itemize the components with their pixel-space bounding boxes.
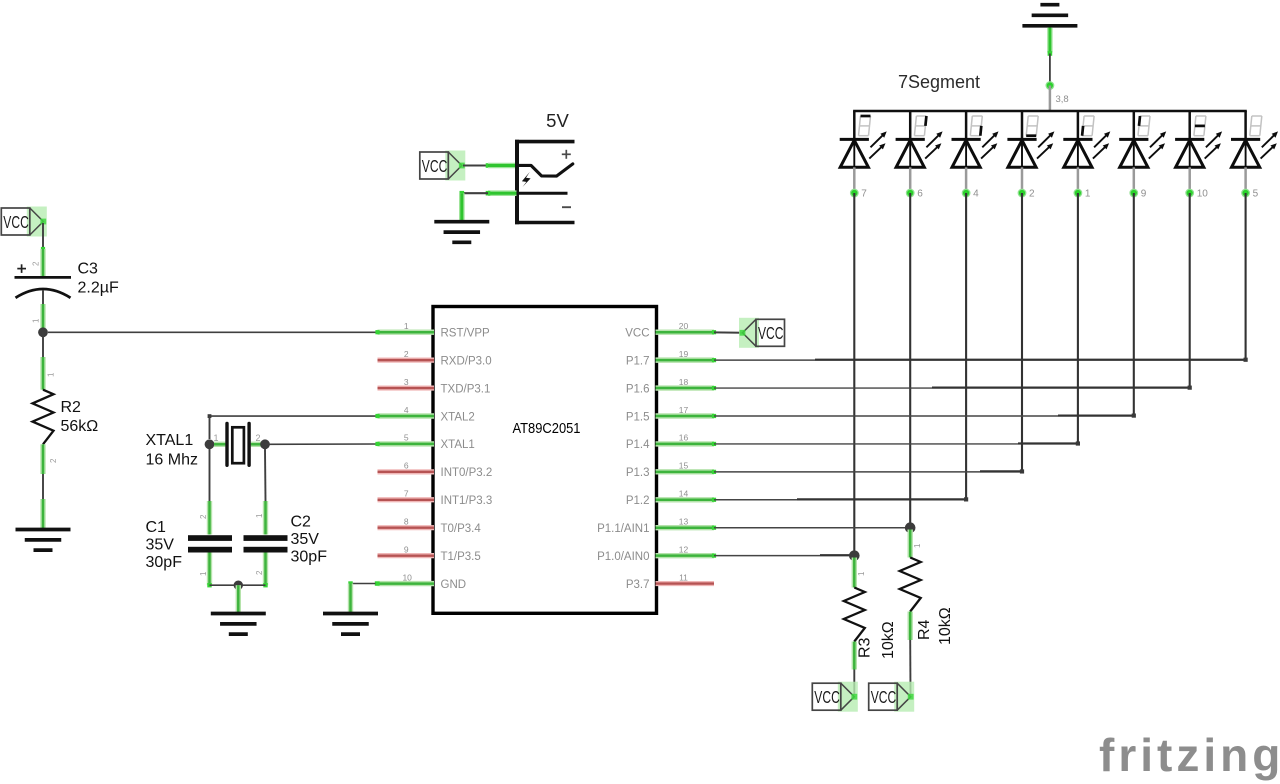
svg-text:5V: 5V [546, 110, 569, 131]
capacitor C1 pin 2 (green) [207, 501, 212, 535]
svg-text:10kΩ: 10kΩ [937, 607, 954, 645]
svg-text:P1.1/AIN1: P1.1/AIN1 [597, 523, 649, 535]
wire R3 to VCC flag [853, 670, 855, 696]
svg-text:VCC: VCC [422, 156, 448, 176]
svg-text:12: 12 [679, 544, 689, 554]
svg-text:10: 10 [1197, 189, 1209, 200]
resistor R4 pin 1 (green) [908, 530, 913, 558]
svg-text:30pF: 30pF [146, 554, 183, 571]
svg-text:P1.2: P1.2 [626, 495, 650, 507]
pin 19 P1.7 (right) [626, 349, 716, 368]
junction crystal pin 2 node [260, 439, 270, 449]
wire P1.7 to led column [714, 358, 1248, 362]
ground (below R2) [16, 530, 71, 551]
ground (at battery) [434, 222, 489, 243]
resistor R3 [844, 588, 865, 642]
pin 3 TXD/P3.1 (left) [378, 377, 491, 396]
pin 2 RXD/P3.0 (left) [378, 349, 492, 368]
pin label 3,8 [1056, 94, 1069, 105]
power flag VCC (below R3) [812, 682, 858, 712]
pin 5 XTAL1 (left) [375, 433, 474, 452]
svg-text:R4: R4 [916, 619, 933, 640]
svg-text:1: 1 [404, 321, 409, 331]
led segment g (display pin 10) [1175, 111, 1222, 167]
7segment cathode pin 10 [1185, 167, 1208, 199]
led segment d (display pin 2) [1007, 111, 1054, 167]
junction node P1.0/R3 [849, 550, 860, 561]
svg-text:VCC: VCC [3, 212, 29, 232]
pin 17 P1.5 (right) [626, 405, 716, 424]
svg-text:INT0/P3.2: INT0/P3.2 [441, 467, 493, 479]
wire pin20 to VCC flag [714, 331, 743, 333]
pin 13 P1.1/AIN1 (right) [597, 517, 716, 536]
pin label 1 of C2 [255, 513, 264, 518]
svg-text:9: 9 [1141, 189, 1147, 200]
pin label 2 of crystal [256, 433, 261, 443]
wire led 3 down to row [965, 193, 967, 500]
pin 4 XTAL2 (left) [375, 405, 474, 424]
svg-text:6: 6 [917, 189, 923, 200]
label C1 35V 30pF [146, 519, 183, 571]
wire R4 to VCC flag [909, 640, 911, 695]
pin label 1 of R3 [857, 571, 866, 576]
svg-text:1: 1 [1085, 189, 1091, 200]
wire P1.3 to led column [714, 469, 1024, 473]
wire XTAL2 pin to crystal (top) [208, 414, 377, 439]
wire R2 to ground [42, 474, 44, 499]
svg-text:30pF: 30pF [291, 549, 328, 566]
svg-text:1: 1 [199, 571, 208, 576]
pin 1 RST/VPP (left) [375, 321, 490, 340]
svg-text:7: 7 [861, 189, 867, 200]
svg-text:2.2µF: 2.2µF [78, 280, 119, 297]
svg-text:1: 1 [255, 513, 264, 518]
ground pin (green) below R2 [40, 499, 45, 529]
label 5V [546, 110, 569, 131]
svg-text:P1.4: P1.4 [626, 439, 650, 451]
wire led 5 down to row [1077, 193, 1079, 444]
pin label 1 of R4 [913, 543, 922, 548]
wire led 8 down to row [1245, 193, 1247, 360]
svg-text:VCC: VCC [625, 328, 649, 340]
svg-text:4: 4 [404, 405, 409, 415]
pin label 2 of R2 [49, 458, 58, 463]
resistor R4 [900, 558, 921, 612]
battery 5V symbol [515, 140, 575, 225]
led segment e (display pin 1) [1063, 111, 1110, 167]
wire led 1 down to row [853, 193, 855, 556]
svg-text:7Segment: 7Segment [898, 72, 980, 92]
ground pin (green) at battery [459, 193, 465, 221]
svg-text:R2: R2 [61, 399, 82, 416]
ground pin (green) below C1/C2 [236, 585, 241, 613]
wire led 2 down to row [909, 193, 911, 528]
svg-text:2: 2 [1029, 189, 1035, 200]
pin label 1 of R2 [47, 372, 56, 377]
svg-text:15: 15 [679, 461, 689, 471]
svg-text:1: 1 [913, 543, 922, 548]
fritzing watermark [1099, 729, 1280, 781]
svg-text:1: 1 [857, 571, 866, 576]
svg-text:T0/P3.4: T0/P3.4 [441, 523, 482, 535]
led segment b (display pin 6) [896, 111, 943, 167]
battery - pin (green) [486, 191, 517, 196]
svg-text:C3: C3 [78, 261, 99, 278]
7segment anode bus [853, 110, 1247, 113]
power flag VCC (top left) [1, 207, 47, 237]
pin 8 T0/P3.4 (left) [378, 517, 482, 536]
svg-text:3: 3 [404, 377, 409, 387]
pin label 1 of C3 [32, 318, 41, 323]
label R3 10kOhm (rotated) [857, 621, 898, 659]
svg-text:8: 8 [404, 517, 409, 527]
svg-text:2: 2 [255, 570, 264, 575]
wire VCC flag to C3 pin 2 [41, 223, 45, 251]
wire C2 to center junction [242, 583, 268, 587]
label XTAL1 16 Mhz [146, 432, 198, 469]
junction C1/C2 ground node [234, 581, 243, 590]
svg-text:P1.0/AIN0: P1.0/AIN0 [597, 551, 649, 563]
resistor R2 pin 1 (green) [40, 357, 45, 390]
svg-text:13: 13 [679, 517, 689, 527]
wire C1 to center junction [207, 583, 235, 587]
pin 9 T1/P3.5 (left) [378, 544, 481, 563]
wire P1.0 to led column [714, 554, 854, 556]
svg-text:10kΩ: 10kΩ [880, 621, 897, 659]
svg-text:20: 20 [679, 321, 689, 331]
svg-text:18: 18 [679, 377, 689, 387]
led segment c (display pin 4) [952, 111, 999, 167]
resistor R2 [33, 390, 54, 445]
pin label 2 of C1 [199, 514, 208, 519]
wire led 7 down to row [1189, 193, 1191, 388]
wire crystal pin1 down to C1 [209, 449, 211, 501]
7segment cathode pin 5 [1241, 167, 1258, 199]
wire crystal pin 2 to XTAL1 pin [265, 443, 377, 445]
capacitor C2 pin 1 (green) [263, 501, 268, 535]
capacitor C1 35V 30pF [188, 535, 232, 552]
svg-text:5: 5 [404, 433, 409, 443]
pin label 2 of C3 [32, 261, 41, 266]
svg-text:XTAL1: XTAL1 [146, 432, 194, 449]
capacitor C1 pin 1 (green) [207, 553, 212, 586]
svg-text:T1/P3.5: T1/P3.5 [441, 551, 481, 563]
7segment cathode pin 9 [1129, 167, 1146, 199]
svg-text:AT89C2051: AT89C2051 [513, 421, 581, 437]
wire GND pin 10 to ground [348, 581, 379, 585]
pin 10 GND (left) [375, 572, 466, 591]
wire junction down to R2 [42, 332, 44, 357]
capacitor C2 35V 30pF [244, 535, 288, 552]
svg-text:XTAL1: XTAL1 [441, 439, 475, 451]
pin label 1 of C1 [199, 571, 208, 576]
pin 18 P1.6 (right) [626, 377, 716, 396]
pin 7 INT1/P3.3 (left) [378, 489, 493, 508]
svg-text:1: 1 [32, 318, 41, 323]
svg-text:2: 2 [49, 458, 58, 463]
led segment f (display pin 9) [1119, 111, 1166, 167]
svg-text:TXD/P3.1: TXD/P3.1 [441, 383, 491, 395]
svg-text:35V: 35V [146, 537, 175, 554]
wire P1.4 to led column [714, 441, 1080, 445]
junction crystal pin 1 node [205, 439, 215, 449]
svg-text:2: 2 [199, 514, 208, 519]
wire P1.6 to led column [714, 386, 1192, 390]
wire ground to 7segment common [1048, 28, 1053, 86]
7segment cathode pin 4 [962, 167, 979, 199]
svg-text:1: 1 [47, 372, 56, 377]
pin label 2 of C2 [255, 570, 264, 575]
pin 16 P1.4 (right) [626, 433, 716, 452]
svg-text:56kΩ: 56kΩ [61, 418, 99, 435]
wire crystal pin2 down to C2 [264, 449, 267, 501]
svg-text:P1.3: P1.3 [626, 467, 650, 479]
pin 12 P1.0/AIN0 (right) [597, 544, 716, 563]
svg-text:17: 17 [679, 405, 689, 415]
junction node at C3/R2/RST [38, 327, 48, 337]
7segment cathode pin 6 [906, 167, 923, 199]
crystal XTAL1 16 Mhz [214, 423, 261, 465]
7segment cathode pin 7 [850, 167, 867, 199]
label C3 2.2uF [78, 261, 119, 297]
wire led 4 down to row [1021, 193, 1023, 472]
wire P1.1 to led column [714, 527, 910, 529]
battery + pin (green) [488, 163, 517, 169]
svg-text:4: 4 [973, 189, 979, 200]
svg-text:16 Mhz: 16 Mhz [146, 452, 198, 469]
capacitor C3 2.2uF (polarized) [15, 264, 72, 298]
svg-text:XTAL2: XTAL2 [441, 411, 475, 423]
svg-text:9: 9 [404, 544, 409, 554]
ground (top, flipped) [1022, 5, 1077, 26]
resistor R4 pin 2 (green) [908, 612, 913, 641]
wire led 6 down to row [1133, 193, 1135, 416]
pin 6 INT0/P3.2 (left) [378, 461, 493, 480]
pin 15 P1.3 (right) [626, 461, 716, 480]
svg-text:19: 19 [679, 349, 689, 359]
svg-text:2: 2 [256, 433, 261, 443]
svg-text:11: 11 [679, 572, 688, 582]
wire P1.5 to led column [714, 413, 1136, 417]
junction node P1.1/R4 [905, 522, 916, 533]
label AT89C2051 [513, 421, 581, 437]
svg-text:3,8: 3,8 [1056, 94, 1069, 105]
resistor R3 pin 1 (green) [852, 558, 857, 588]
7segment cathode pin 1 [1074, 167, 1091, 199]
label 7Segment [898, 72, 980, 92]
wire P1.2 to led column [714, 497, 968, 501]
capacitor C3 pin 1 (green) [42, 290, 44, 331]
svg-text:P3.7: P3.7 [626, 579, 650, 591]
wire battery - to ground [460, 191, 489, 196]
svg-text:VCC: VCC [814, 687, 840, 707]
svg-text:2: 2 [32, 261, 41, 266]
ground (below IC) [323, 614, 378, 635]
label R2 56kOhm [61, 399, 99, 435]
svg-text:INT1/P3.3: INT1/P3.3 [441, 495, 493, 507]
led segment a (display pin 7) [840, 111, 887, 167]
resistor R2 pin 2 (green) [40, 444, 45, 474]
svg-text:RST/VPP: RST/VPP [441, 328, 491, 340]
power flag VCC (at pin 20) [739, 318, 785, 348]
ground (below C1/C2) [211, 614, 266, 635]
wire VCC flag to battery + [463, 163, 490, 168]
svg-text:14: 14 [679, 489, 689, 499]
power flag VCC (at battery) [420, 151, 466, 181]
op-amp/ic U1 AT89C2051 body [433, 307, 657, 614]
svg-text:7: 7 [404, 489, 409, 499]
label R4 10kOhm (rotated) [916, 607, 954, 645]
capacitor C3 pin 2 (green) [40, 249, 45, 277]
svg-text:P1.7: P1.7 [626, 355, 650, 367]
wire junction to RST/VPP pin 1 [48, 331, 377, 333]
7segment common pin 3,8 [1046, 81, 1055, 110]
svg-text:P1.6: P1.6 [626, 383, 650, 395]
svg-text:6: 6 [404, 461, 409, 471]
led segment dp (display pin 5) [1231, 111, 1278, 167]
svg-text:VCC: VCC [758, 323, 784, 343]
svg-text:2: 2 [404, 349, 409, 359]
power flag VCC (below R4) [869, 682, 915, 712]
svg-text:16: 16 [679, 433, 689, 443]
svg-text:P1.5: P1.5 [626, 411, 650, 423]
svg-text:C1: C1 [146, 519, 167, 536]
pin 20 VCC (right) [625, 321, 716, 340]
svg-text:10: 10 [402, 572, 412, 582]
svg-text:GND: GND [441, 579, 467, 591]
ground pin (green) below IC [348, 584, 353, 614]
svg-text:VCC: VCC [871, 687, 897, 707]
svg-text:5: 5 [1253, 189, 1259, 200]
svg-text:35V: 35V [291, 531, 320, 548]
capacitor C2 pin 2 (green) [263, 553, 268, 586]
svg-text:fritzing: fritzing [1099, 729, 1280, 781]
svg-text:R3: R3 [857, 637, 874, 658]
pin label 1 of crystal [214, 433, 219, 443]
svg-text:1: 1 [214, 433, 219, 443]
label C2 35V 30pF [291, 514, 328, 566]
svg-text:RXD/P3.0: RXD/P3.0 [441, 355, 492, 367]
pin 14 P1.2 (right) [626, 489, 716, 508]
svg-text:C2: C2 [291, 514, 312, 531]
pin 11 P3.7 (right) [626, 572, 714, 591]
resistor R3 pin 2 (green) [852, 642, 857, 670]
7segment cathode pin 2 [1018, 167, 1035, 199]
